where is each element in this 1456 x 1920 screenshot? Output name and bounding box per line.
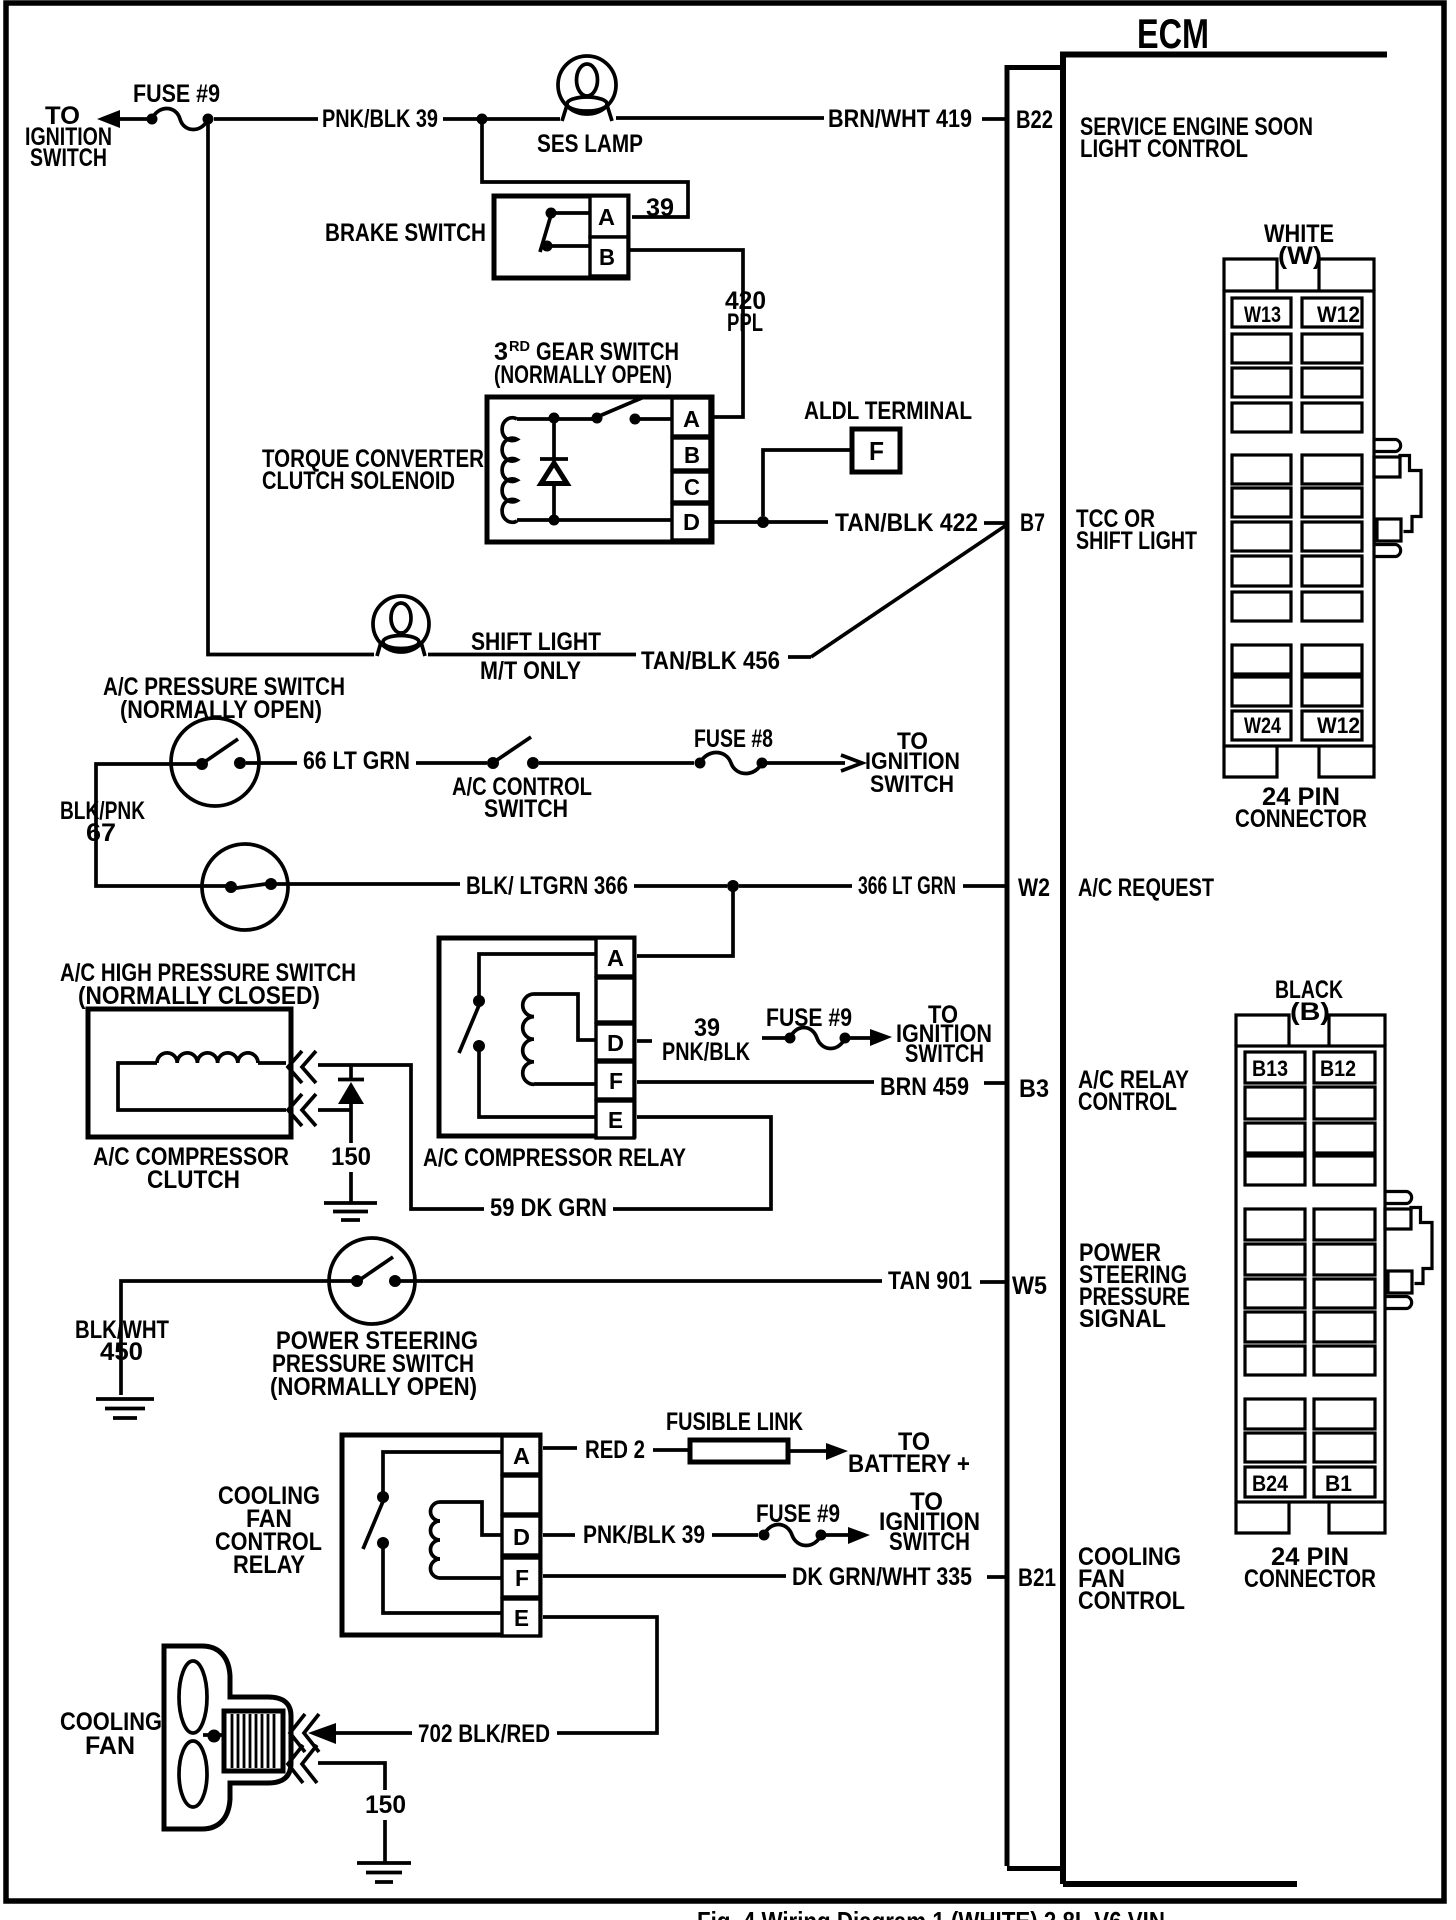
black connector pin labels bbox=[1252, 1056, 1356, 1496]
svg-text:CONTROL: CONTROL bbox=[1078, 1088, 1177, 1116]
svg-text:W2: W2 bbox=[1018, 874, 1050, 902]
svg-text:A/C COMPRESSOR RELAY: A/C COMPRESSOR RELAY bbox=[423, 1144, 686, 1172]
label COOLING FAN CONTROL RELAY bbox=[215, 1482, 322, 1579]
svg-text:B24: B24 bbox=[1252, 1471, 1289, 1496]
svg-text:PNK/BLK 39: PNK/BLK 39 bbox=[322, 105, 438, 133]
svg-text:E: E bbox=[608, 1107, 623, 1133]
label COOLING FAN CONTROL bbox=[1078, 1543, 1185, 1615]
svg-text:TAN/BLK 456: TAN/BLK 456 bbox=[641, 647, 780, 675]
black connector key lock bbox=[1385, 1192, 1432, 1309]
svg-text:CONTROL: CONTROL bbox=[1078, 1587, 1185, 1615]
svg-text:B3: B3 bbox=[1019, 1075, 1049, 1103]
svg-text:FUSIBLE LINK: FUSIBLE LINK bbox=[666, 1408, 803, 1436]
svg-text:W12: W12 bbox=[1317, 713, 1360, 738]
svg-text:A/C REQUEST: A/C REQUEST bbox=[1078, 874, 1214, 902]
svg-text:66 LT GRN: 66 LT GRN bbox=[303, 747, 410, 775]
ground (BLK/WHT 450) bbox=[96, 1399, 154, 1418]
cooling fan control relay K2 bbox=[342, 1435, 540, 1636]
wire BRN 459 to B3 bbox=[637, 1073, 1049, 1103]
svg-text:A: A bbox=[683, 406, 700, 432]
svg-text:CLUTCH SOLENOID: CLUTCH SOLENOID bbox=[262, 467, 455, 495]
svg-text:F: F bbox=[869, 436, 884, 466]
svg-text:(NORMALLY CLOSED): (NORMALLY CLOSED) bbox=[78, 982, 320, 1010]
svg-text:ECM: ECM bbox=[1137, 10, 1209, 57]
wire BLK/ LTGRN 366 bbox=[276, 872, 727, 900]
relay K2 switch bbox=[363, 1452, 502, 1613]
black connector label bbox=[1275, 976, 1343, 1026]
arrow to ignition switch (top left) bbox=[97, 110, 147, 128]
diode D2 (clutch) bbox=[338, 1065, 364, 1143]
A/C pressure switch S1 bbox=[171, 718, 259, 806]
svg-text:FAN: FAN bbox=[85, 1732, 135, 1760]
fan blades bbox=[179, 1661, 223, 1807]
A/C compressor relay K1 bbox=[423, 938, 686, 1172]
white connector pin boxes bbox=[1232, 298, 1362, 740]
label TCC OR SHIFT LIGHT bbox=[1076, 505, 1197, 555]
label TO BATTERY + bbox=[848, 1428, 970, 1478]
svg-text:702 BLK/RED: 702 BLK/RED bbox=[418, 1720, 550, 1748]
wire 39 PNK/BLK (relay D to fuse) bbox=[637, 1014, 785, 1066]
svg-text:FUSE #8: FUSE #8 bbox=[694, 725, 773, 753]
wire RED 2 to fusible link bbox=[543, 1436, 690, 1464]
fuse F9 (mid) bbox=[766, 1004, 852, 1049]
label SERVICE ENGINE SOON LIGHT CONTROL bbox=[1080, 113, 1313, 163]
shift light lamp bbox=[373, 596, 601, 685]
svg-text:BRN 459: BRN 459 bbox=[880, 1073, 969, 1101]
svg-text:SWITCH: SWITCH bbox=[905, 1040, 984, 1068]
svg-text:(NORMALLY OPEN): (NORMALLY OPEN) bbox=[270, 1373, 477, 1401]
wire junction 366 down to relay A bbox=[637, 886, 733, 956]
arrow to ignition switch (fuse 8) bbox=[767, 755, 862, 771]
svg-text:B: B bbox=[599, 244, 615, 270]
svg-text:CONNECTOR: CONNECTOR bbox=[1235, 805, 1367, 833]
label A/C COMPRESSOR CLUTCH bbox=[93, 1143, 289, 1194]
svg-text:B22: B22 bbox=[1016, 106, 1053, 134]
label TO IGNITION SWITCH (fuse 9 mid) bbox=[896, 1001, 992, 1068]
svg-text:TAN 901: TAN 901 bbox=[888, 1267, 972, 1295]
fusible link FL bbox=[666, 1408, 803, 1462]
wire fan to ground 150 bbox=[318, 1763, 406, 1862]
wire BLK/WHT 450 to ground bbox=[75, 1281, 352, 1395]
inline connector chevrons (fan upper) bbox=[290, 1714, 319, 1752]
fan motor bbox=[224, 1711, 283, 1771]
svg-text:67: 67 bbox=[86, 819, 116, 847]
svg-text:PNK/BLK: PNK/BLK bbox=[662, 1038, 750, 1066]
inline connector chevrons (fan lower) bbox=[288, 1745, 317, 1783]
svg-text:SWITCH: SWITCH bbox=[30, 144, 107, 172]
junction node (PNK/BLK 39) bbox=[477, 114, 488, 125]
fuse F9 (lower) bbox=[756, 1500, 840, 1546]
svg-text:A: A bbox=[607, 945, 624, 971]
svg-text:DK GRN/WHT 335: DK GRN/WHT 335 bbox=[792, 1563, 972, 1591]
svg-text:W13: W13 bbox=[1244, 302, 1281, 327]
label 24 PIN CONNECTOR (black) bbox=[1244, 1543, 1376, 1593]
svg-text:PNK/BLK 39: PNK/BLK 39 bbox=[583, 1521, 705, 1549]
torque converter clutch solenoid U1 bbox=[262, 397, 712, 542]
label A/C PRESSURE SWITCH (NORMALLY OPEN) bbox=[103, 673, 345, 724]
wire 702 BLK/RED (relay E to fan) bbox=[334, 1617, 657, 1748]
svg-text:E: E bbox=[514, 1605, 529, 1631]
svg-text:D: D bbox=[513, 1524, 530, 1550]
junction node 366 bbox=[727, 880, 739, 892]
arrow into fan connector bbox=[308, 1723, 336, 1744]
white connector pin labels bbox=[1244, 302, 1360, 738]
svg-text:F: F bbox=[609, 1068, 623, 1094]
label TO IGNITION SWITCH (fuse 8) bbox=[865, 728, 960, 798]
svg-text:SES LAMP: SES LAMP bbox=[537, 130, 643, 158]
svg-text:SIGNAL: SIGNAL bbox=[1079, 1305, 1166, 1333]
wire to fuse F8 bbox=[539, 761, 694, 765]
SES lamp bbox=[537, 56, 643, 158]
svg-text:A: A bbox=[598, 204, 615, 230]
svg-text:D: D bbox=[683, 509, 700, 535]
ECM title bbox=[1137, 10, 1209, 57]
wire TAN/BLK 456 bbox=[428, 647, 811, 675]
clutch internal wires bbox=[118, 1063, 286, 1110]
power steering pressure switch S4 bbox=[329, 1238, 415, 1324]
solenoid coil bbox=[502, 418, 517, 523]
svg-text:BLK/ LTGRN 366: BLK/ LTGRN 366 bbox=[466, 872, 628, 900]
svg-text:SHIFT LIGHT: SHIFT LIGHT bbox=[471, 628, 601, 656]
svg-text:RD: RD bbox=[509, 338, 530, 355]
wire PNK/BLK 39 (relay K2 D) bbox=[543, 1521, 758, 1549]
wire TAN 901 to W5 bbox=[400, 1267, 1047, 1300]
svg-text:150: 150 bbox=[365, 1791, 406, 1819]
bottom caption (clipped) bbox=[697, 1906, 1165, 1920]
label POWER STEERING PRESSURE SIGNAL bbox=[1079, 1239, 1190, 1333]
label COOLING FAN bbox=[60, 1708, 162, 1760]
svg-text:A: A bbox=[513, 1443, 530, 1469]
solenoid internal wires and switch bbox=[517, 397, 672, 526]
white connector label bbox=[1264, 220, 1334, 270]
svg-text:FUSE #9: FUSE #9 bbox=[756, 1500, 840, 1528]
svg-text:B13: B13 bbox=[1252, 1056, 1288, 1081]
svg-text:TAN/BLK 422: TAN/BLK 422 bbox=[835, 509, 978, 537]
label TO IGNITION SWITCH (fuse 9 lower) bbox=[879, 1488, 980, 1556]
cooling fan shroud bbox=[164, 1646, 291, 1829]
wire 420 PPL (brake B to gear switch A) bbox=[628, 250, 766, 417]
svg-text:PPL: PPL bbox=[727, 309, 763, 337]
svg-text:C: C bbox=[684, 474, 700, 500]
svg-text:CONNECTOR: CONNECTOR bbox=[1244, 1565, 1376, 1593]
label A/C HIGH PRESSURE SWITCH (NORMALLY CLOSED) bbox=[60, 959, 356, 1010]
wire 59 DK GRN (clutch to relay E) bbox=[318, 1065, 771, 1222]
wire DK GRN/WHT 335 to B21 bbox=[543, 1563, 1056, 1592]
diode D1 bbox=[540, 423, 568, 520]
svg-text:(NORMALLY OPEN): (NORMALLY OPEN) bbox=[494, 361, 672, 389]
svg-text:Fig. 4 Wiring Diagram 1 (WHITE: Fig. 4 Wiring Diagram 1 (WHITE) 2.8L V6 … bbox=[697, 1906, 1165, 1920]
label TO IGNITION SWITCH (top left) bbox=[25, 102, 112, 172]
svg-text:ALDL TERMINAL: ALDL TERMINAL bbox=[804, 397, 972, 425]
svg-text:SWITCH: SWITCH bbox=[870, 771, 954, 798]
wire junction to brake switch A bbox=[482, 119, 688, 222]
svg-text:LIGHT CONTROL: LIGHT CONTROL bbox=[1080, 135, 1248, 163]
A/C compressor clutch box bbox=[88, 1009, 291, 1137]
svg-text:150: 150 bbox=[331, 1143, 371, 1171]
svg-text:CLUTCH: CLUTCH bbox=[147, 1166, 240, 1194]
A/C control switch S2 bbox=[452, 737, 592, 823]
junction node (TAN/BLK 422) bbox=[757, 516, 769, 528]
svg-text:366 LT GRN: 366 LT GRN bbox=[858, 872, 956, 900]
label 24 PIN CONNECTOR (white) bbox=[1235, 783, 1367, 833]
wire PNK/BLK 39 (fuse to SES lamp to ECM) bbox=[214, 105, 824, 133]
arrow to ignition switch (fuse 9 lower) bbox=[826, 1527, 870, 1544]
white connector key lock bbox=[1374, 440, 1421, 557]
vertical wire fuse9 to shift light bbox=[208, 124, 374, 655]
svg-text:FUSE #9: FUSE #9 bbox=[766, 1004, 852, 1032]
svg-text:SWITCH: SWITCH bbox=[484, 795, 568, 823]
svg-text:W12: W12 bbox=[1317, 302, 1360, 327]
svg-text:(W): (W) bbox=[1278, 242, 1322, 270]
fuse F9 (top) bbox=[133, 80, 220, 130]
svg-text:B: B bbox=[684, 442, 700, 468]
svg-text:39: 39 bbox=[646, 194, 674, 222]
label 3RD GEAR SWITCH (NORMALLY OPEN) bbox=[494, 338, 679, 389]
white 24 pin connector J1 outline bbox=[1224, 259, 1374, 777]
diagonal wire 456 to B7 bbox=[811, 526, 1005, 657]
ECM box bbox=[1060, 52, 1387, 1884]
ground (cooling fan 150) bbox=[357, 1863, 411, 1882]
svg-text:B21: B21 bbox=[1018, 1564, 1056, 1592]
svg-text:FUSE #9: FUSE #9 bbox=[133, 80, 220, 108]
relay K1 coil bbox=[523, 994, 596, 1084]
svg-text:BRN/WHT 419: BRN/WHT 419 bbox=[828, 105, 972, 133]
svg-text:59 DK GRN: 59 DK GRN bbox=[490, 1194, 607, 1222]
wire 66 LT GRN bbox=[246, 747, 487, 775]
svg-text:M/T ONLY: M/T ONLY bbox=[480, 657, 581, 685]
brake switch bbox=[325, 196, 628, 278]
arrow to ignition switch (fuse 9 mid) bbox=[850, 1029, 892, 1046]
ALDL terminal bbox=[763, 397, 972, 516]
svg-text:D: D bbox=[607, 1030, 624, 1056]
label A/C REQUEST bbox=[1078, 874, 1214, 902]
label POWER STEERING PRESSURE SWITCH (NORMALLY OPEN) bbox=[270, 1327, 478, 1401]
svg-text:W5: W5 bbox=[1012, 1272, 1047, 1300]
svg-text:450: 450 bbox=[100, 1338, 143, 1366]
inline connector chevrons (clutch lower) bbox=[288, 1094, 316, 1126]
ECM connector strip bbox=[1007, 65, 1060, 1869]
clutch coil bbox=[157, 1053, 258, 1063]
fuse F8 bbox=[694, 725, 773, 774]
svg-text:B1: B1 bbox=[1325, 1471, 1352, 1496]
relay K1 switch bbox=[459, 954, 596, 1117]
svg-text:BATTERY +: BATTERY + bbox=[848, 1450, 970, 1478]
relay K2 coil bbox=[431, 1502, 503, 1578]
svg-text:RED 2: RED 2 bbox=[585, 1436, 645, 1464]
A/C request switch S3 bbox=[202, 844, 288, 930]
inline connector chevrons (clutch upper) bbox=[288, 1051, 316, 1083]
svg-text:RELAY: RELAY bbox=[233, 1551, 305, 1579]
svg-text:SWITCH: SWITCH bbox=[889, 1528, 970, 1556]
wire BLK/PNK 67 bbox=[60, 764, 226, 886]
svg-text:(B): (B) bbox=[1290, 998, 1330, 1026]
ground 150 (clutch) bbox=[324, 1143, 377, 1220]
wire TAN/BLK 422 to B7 bbox=[710, 509, 1045, 537]
svg-text:F: F bbox=[515, 1565, 529, 1591]
svg-text:BRAKE SWITCH: BRAKE SWITCH bbox=[325, 219, 486, 247]
svg-text:B7: B7 bbox=[1020, 509, 1045, 537]
label A/C RELAY CONTROL bbox=[1078, 1066, 1189, 1116]
black 24 pin connector J2 outline bbox=[1236, 1015, 1385, 1533]
svg-text:SHIFT LIGHT: SHIFT LIGHT bbox=[1076, 527, 1197, 555]
wire BRN/WHT 419 to B22 bbox=[828, 105, 1053, 134]
svg-text:W24: W24 bbox=[1244, 713, 1282, 738]
svg-text:B12: B12 bbox=[1320, 1056, 1356, 1081]
black connector pin boxes bbox=[1245, 1052, 1375, 1497]
arrow to battery (fusible link) bbox=[788, 1443, 848, 1460]
wire 366 LT GRN to W2 bbox=[739, 872, 1050, 902]
